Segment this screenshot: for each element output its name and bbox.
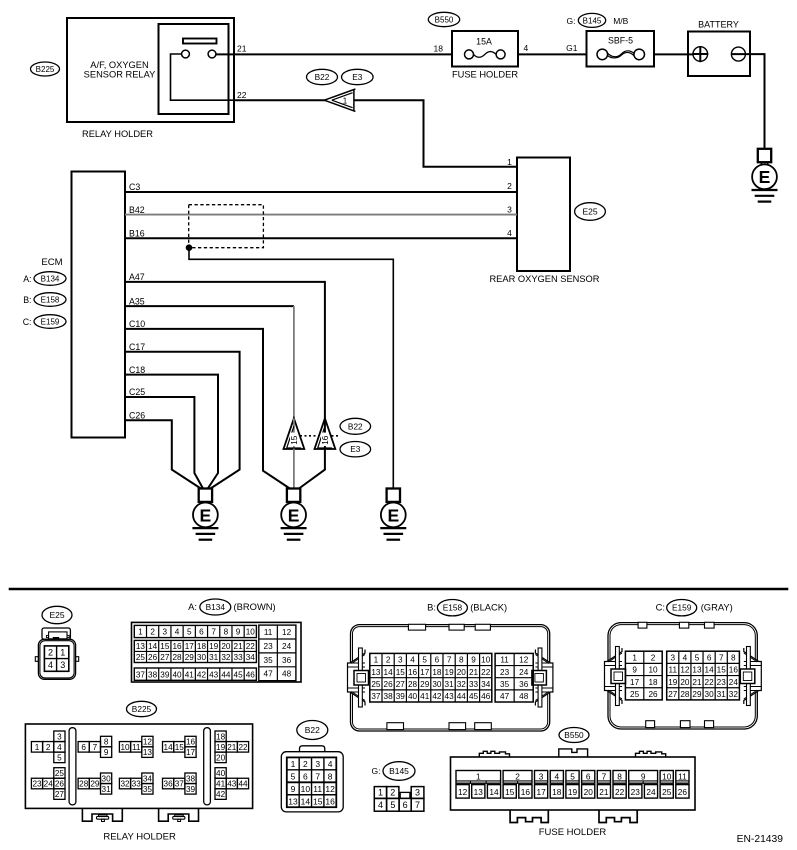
svg-text:A47: A47 — [129, 272, 145, 282]
wire A47 via triangle 16 to ground — [125, 282, 325, 418]
svg-text:43: 43 — [209, 670, 219, 679]
svg-text:17: 17 — [186, 748, 196, 757]
svg-text:30: 30 — [705, 690, 715, 699]
svg-text:7: 7 — [447, 656, 452, 665]
svg-text:28: 28 — [680, 690, 690, 699]
ECM box — [72, 172, 126, 438]
fuse holder bracket right — [599, 810, 637, 823]
svg-text:34: 34 — [246, 653, 256, 662]
connector B225 pins 40-44 — [215, 768, 249, 800]
wire through triangle 15 below — [293, 449, 295, 489]
relay holder bracket right — [159, 808, 199, 821]
svg-text:47: 47 — [264, 670, 274, 679]
svg-text:8: 8 — [459, 656, 464, 665]
svg-text:4: 4 — [328, 759, 333, 769]
svg-text:26: 26 — [678, 787, 688, 797]
connector oval B550 bottom — [559, 728, 589, 743]
svg-text:16: 16 — [186, 738, 196, 747]
svg-text:33: 33 — [469, 680, 479, 689]
svg-text:1: 1 — [378, 787, 383, 797]
svg-text:4: 4 — [378, 800, 383, 810]
svg-text:18: 18 — [197, 642, 207, 651]
svg-text:33: 33 — [132, 780, 142, 789]
connector oval E25 middle — [575, 203, 606, 221]
svg-text:24: 24 — [44, 780, 54, 789]
svg-text:15: 15 — [175, 743, 185, 752]
svg-text:2: 2 — [48, 648, 53, 658]
svg-text:20: 20 — [584, 787, 594, 797]
svg-text:C26: C26 — [129, 410, 145, 420]
svg-text:B42: B42 — [129, 205, 145, 215]
svg-text:6: 6 — [199, 628, 204, 637]
svg-text:C:: C: — [656, 602, 665, 613]
svg-text:32: 32 — [120, 780, 130, 789]
svg-text:1: 1 — [476, 771, 481, 781]
svg-text:20: 20 — [216, 753, 226, 762]
svg-text:19: 19 — [209, 642, 219, 651]
svg-text:22: 22 — [246, 642, 256, 651]
svg-text:13: 13 — [143, 748, 153, 757]
svg-text:M/B: M/B — [613, 16, 628, 26]
svg-text:C10: C10 — [129, 319, 145, 329]
svg-text:30: 30 — [197, 653, 207, 662]
svg-text:7: 7 — [211, 628, 216, 637]
svg-text:E159: E159 — [672, 603, 692, 613]
svg-text:9: 9 — [632, 666, 637, 675]
wire B16 to sensor pin 4 — [125, 237, 517, 239]
svg-text:E: E — [200, 505, 212, 525]
svg-text:44: 44 — [221, 670, 231, 679]
svg-text:3: 3 — [670, 653, 675, 662]
svg-text:21: 21 — [692, 678, 702, 687]
svg-text:17: 17 — [630, 678, 640, 687]
ground E right — [380, 489, 406, 540]
svg-text:4: 4 — [175, 628, 180, 637]
wire C3 to sensor pin 2 — [125, 191, 517, 193]
svg-text:36: 36 — [282, 656, 292, 665]
svg-text:10: 10 — [301, 784, 311, 794]
wire C25 to ground — [125, 397, 203, 489]
svg-text:21: 21 — [227, 743, 237, 752]
svg-text:6: 6 — [586, 771, 591, 781]
svg-text:A:: A: — [188, 601, 197, 612]
svg-text:16: 16 — [172, 642, 182, 651]
svg-text:BATTERY: BATTERY — [698, 20, 739, 30]
connector B550 fuse holder box — [451, 757, 696, 810]
svg-text:B225: B225 — [36, 65, 55, 74]
svg-text:31: 31 — [209, 653, 219, 662]
connector oval E3 top — [342, 69, 374, 84]
svg-text:35: 35 — [143, 785, 153, 794]
svg-text:9: 9 — [291, 784, 296, 794]
svg-text:E3: E3 — [350, 444, 361, 454]
shield triangle 15 — [284, 418, 305, 449]
svg-text:2: 2 — [46, 743, 51, 752]
svg-text:28: 28 — [172, 653, 182, 662]
svg-text:38: 38 — [186, 774, 196, 783]
svg-text:19: 19 — [216, 743, 226, 752]
svg-text:1: 1 — [507, 157, 512, 167]
svg-text:1: 1 — [138, 628, 143, 637]
svg-text:40: 40 — [408, 692, 418, 701]
svg-text:42: 42 — [432, 692, 442, 701]
svg-text:15: 15 — [313, 796, 323, 806]
svg-text:E: E — [288, 505, 300, 525]
svg-text:6: 6 — [81, 743, 86, 752]
svg-text:5: 5 — [291, 771, 296, 781]
svg-text:23: 23 — [264, 642, 274, 651]
svg-text:C:: C: — [23, 317, 32, 327]
svg-text:42: 42 — [216, 790, 226, 799]
svg-text:39: 39 — [186, 785, 196, 794]
svg-text:13: 13 — [371, 668, 381, 677]
svg-text:5: 5 — [695, 653, 700, 662]
relay holder outer box — [67, 18, 234, 122]
svg-text:12: 12 — [325, 784, 335, 794]
svg-text:48: 48 — [282, 670, 292, 679]
svg-text:5: 5 — [390, 800, 395, 810]
svg-text:2: 2 — [150, 628, 155, 637]
svg-text:11: 11 — [678, 771, 687, 781]
svg-text:A/F, OXYGEN: A/F, OXYGEN — [90, 60, 148, 70]
svg-text:20: 20 — [457, 668, 467, 677]
connector B225 pins 32-35 — [119, 773, 153, 794]
svg-text:2: 2 — [386, 656, 391, 665]
svg-text:6: 6 — [707, 653, 712, 662]
connector B225 pins 6-9 — [78, 736, 112, 757]
svg-text:1: 1 — [60, 648, 65, 658]
svg-text:23: 23 — [631, 787, 641, 797]
connector B550 pin cells — [456, 771, 689, 799]
svg-text:24: 24 — [646, 787, 656, 797]
connector B225 pins 23-27 — [31, 768, 65, 800]
fuse holder top tab middle — [559, 749, 588, 757]
svg-text:B550: B550 — [564, 730, 584, 740]
svg-text:10: 10 — [662, 771, 672, 781]
svg-text:30: 30 — [102, 774, 112, 783]
svg-text:E: E — [759, 167, 771, 187]
wire fuse holder to SBF-5 — [518, 53, 587, 55]
svg-text:4: 4 — [524, 43, 529, 53]
svg-text:8: 8 — [104, 738, 109, 747]
svg-text:3: 3 — [539, 771, 544, 781]
svg-text:9: 9 — [471, 656, 476, 665]
svg-text:16: 16 — [729, 666, 739, 675]
svg-text:4: 4 — [410, 656, 415, 665]
wire A35 shielded drop to ground — [293, 306, 295, 418]
svg-text:G:: G: — [567, 16, 576, 26]
svg-text:27: 27 — [668, 690, 678, 699]
svg-text:48: 48 — [519, 692, 529, 701]
svg-text:7: 7 — [315, 771, 320, 781]
svg-text:(BLACK): (BLACK) — [470, 602, 507, 613]
connector oval E25 bottom — [42, 606, 72, 623]
svg-text:B145: B145 — [583, 16, 602, 25]
connector oval B22 bottom — [297, 721, 328, 740]
svg-text:38: 38 — [384, 692, 394, 701]
svg-text:25: 25 — [136, 653, 146, 662]
svg-text:21: 21 — [599, 787, 609, 797]
svg-text:5: 5 — [422, 656, 427, 665]
svg-text:15: 15 — [290, 435, 299, 445]
connector oval E3 middle — [340, 442, 371, 457]
relay internal wire to pin 22 — [171, 54, 235, 100]
svg-text:20: 20 — [680, 678, 690, 687]
svg-text:11: 11 — [132, 743, 141, 752]
svg-text:B134: B134 — [206, 602, 226, 612]
svg-text:26: 26 — [648, 690, 658, 699]
svg-text:B225: B225 — [132, 704, 152, 714]
svg-text:24: 24 — [729, 678, 739, 687]
svg-text:14: 14 — [164, 743, 174, 752]
svg-text:19: 19 — [568, 787, 578, 797]
svg-text:10: 10 — [120, 743, 130, 752]
svg-text:32: 32 — [729, 690, 739, 699]
svg-text:9: 9 — [104, 748, 109, 757]
svg-text:27: 27 — [396, 680, 406, 689]
svg-text:45: 45 — [234, 670, 244, 679]
section divider line — [9, 588, 789, 590]
svg-text:16: 16 — [325, 796, 335, 806]
svg-text:5: 5 — [57, 753, 62, 762]
svg-text:18: 18 — [434, 44, 444, 54]
svg-text:B22: B22 — [315, 72, 330, 82]
svg-text:47: 47 — [500, 692, 510, 701]
svg-text:4: 4 — [48, 660, 53, 670]
svg-text:2: 2 — [390, 787, 395, 797]
relay contact pin 21 — [208, 50, 216, 58]
svg-text:E158: E158 — [41, 295, 60, 304]
svg-text:4: 4 — [683, 653, 688, 662]
svg-text:6: 6 — [303, 771, 308, 781]
wire C10 to ground — [125, 329, 290, 489]
svg-text:27: 27 — [55, 790, 65, 799]
svg-text:1: 1 — [632, 653, 637, 662]
svg-text:38: 38 — [148, 670, 158, 679]
svg-text:FUSE HOLDER: FUSE HOLDER — [539, 827, 607, 838]
svg-text:11: 11 — [669, 666, 678, 675]
svg-text:16: 16 — [408, 668, 418, 677]
svg-text:(BROWN): (BROWN) — [234, 601, 276, 612]
svg-text:25: 25 — [55, 769, 65, 778]
connector B225 pins 10-13 — [119, 736, 153, 757]
svg-text:46: 46 — [246, 670, 256, 679]
svg-text:SBF-5: SBF-5 — [608, 36, 633, 46]
svg-text:26: 26 — [384, 680, 394, 689]
svg-text:21: 21 — [237, 44, 247, 54]
fuse holder top tab right — [636, 751, 666, 757]
wire A35 horizontal — [125, 305, 294, 307]
svg-text:25: 25 — [630, 690, 640, 699]
svg-text:18: 18 — [648, 678, 658, 687]
svg-text:7: 7 — [415, 800, 420, 810]
svg-text:35: 35 — [500, 680, 510, 689]
svg-text:9: 9 — [236, 628, 241, 637]
svg-text:44: 44 — [457, 692, 467, 701]
svg-text:RELAY HOLDER: RELAY HOLDER — [82, 129, 153, 139]
svg-text:39: 39 — [160, 670, 170, 679]
svg-text:E158: E158 — [443, 603, 463, 613]
twisted pair dotted line — [300, 435, 341, 437]
svg-text:E25: E25 — [582, 207, 597, 217]
svg-text:23: 23 — [32, 780, 42, 789]
svg-text:B22: B22 — [348, 421, 363, 431]
svg-text:A:: A: — [23, 274, 31, 284]
wire SBF-5 to battery — [654, 53, 693, 55]
svg-text:32: 32 — [457, 680, 467, 689]
connector B22 pin grid — [287, 757, 337, 807]
svg-text:2: 2 — [303, 759, 308, 769]
svg-text:G1: G1 — [566, 43, 578, 53]
relay holder bracket left — [82, 808, 122, 821]
svg-text:42: 42 — [197, 670, 207, 679]
svg-text:C18: C18 — [129, 365, 145, 375]
svg-text:11: 11 — [264, 628, 273, 637]
svg-text:1: 1 — [291, 759, 296, 769]
svg-text:7: 7 — [719, 653, 724, 662]
fuse holder box with 15A fuse — [452, 31, 518, 67]
svg-text:ECM: ECM — [41, 257, 62, 268]
svg-text:REAR OXYGEN SENSOR: REAR OXYGEN SENSOR — [489, 274, 599, 284]
svg-text:13: 13 — [136, 642, 146, 651]
svg-text:8: 8 — [328, 771, 333, 781]
svg-text:E159: E159 — [41, 317, 60, 326]
svg-text:5: 5 — [187, 628, 192, 637]
svg-text:12: 12 — [680, 666, 690, 675]
svg-text:39: 39 — [396, 692, 406, 701]
svg-text:10: 10 — [648, 666, 658, 675]
svg-text:46: 46 — [481, 692, 491, 701]
connector E25 pin grid — [44, 646, 68, 671]
connector B225 box — [25, 724, 252, 808]
svg-text:37: 37 — [175, 780, 185, 789]
svg-text:17: 17 — [536, 787, 546, 797]
svg-text:(GRAY): (GRAY) — [701, 602, 733, 613]
svg-text:29: 29 — [185, 653, 195, 662]
wire C17 to ground — [125, 352, 240, 489]
svg-text:7: 7 — [93, 743, 98, 752]
svg-text:EN-21439: EN-21439 — [737, 834, 784, 845]
svg-text:28: 28 — [408, 680, 418, 689]
svg-text:34: 34 — [143, 774, 153, 783]
svg-text:18: 18 — [552, 787, 562, 797]
svg-text:10: 10 — [481, 656, 491, 665]
svg-text:5: 5 — [570, 771, 575, 781]
svg-text:4: 4 — [554, 771, 559, 781]
connector E25 housing — [35, 628, 78, 679]
svg-text:14: 14 — [384, 668, 394, 677]
connector E158 pin grid — [370, 653, 533, 702]
svg-text:3: 3 — [60, 660, 65, 670]
svg-text:26: 26 — [55, 780, 65, 789]
svg-text:SENSOR RELAY: SENSOR RELAY — [84, 69, 156, 79]
svg-text:43: 43 — [227, 780, 237, 789]
svg-text:E25: E25 — [49, 610, 64, 620]
svg-text:G:: G: — [372, 766, 381, 776]
shield triangle 16 — [315, 418, 336, 449]
svg-text:7: 7 — [602, 771, 607, 781]
svg-text:15: 15 — [160, 642, 170, 651]
label C: connector oval E159 bottom — [656, 600, 733, 616]
svg-text:21: 21 — [234, 642, 244, 651]
connector E158 housing — [348, 624, 553, 731]
svg-text:44: 44 — [238, 780, 248, 789]
svg-text:C25: C25 — [129, 387, 145, 397]
svg-text:RELAY HOLDER: RELAY HOLDER — [103, 832, 176, 843]
svg-text:15: 15 — [717, 666, 727, 675]
ground E battery — [752, 149, 778, 202]
connector oval B22 top — [307, 69, 338, 84]
label A: connector oval B134 bottom — [188, 599, 276, 615]
svg-text:4: 4 — [507, 228, 512, 238]
svg-text:40: 40 — [172, 670, 182, 679]
svg-text:45: 45 — [469, 692, 479, 701]
connector B225 pins 28-31 — [78, 773, 112, 794]
svg-text:18: 18 — [432, 668, 442, 677]
svg-text:B16: B16 — [129, 228, 145, 238]
svg-text:B134: B134 — [41, 274, 60, 283]
ground E left — [192, 489, 218, 540]
svg-text:25: 25 — [371, 680, 381, 689]
label G: B145 M/B — [567, 13, 629, 27]
wire pin 22 to rear oxygen sensor pin 1 — [234, 100, 517, 167]
connector B225 slot bar right — [204, 728, 211, 805]
svg-text:15: 15 — [396, 668, 406, 677]
connector oval B225 bottom — [127, 701, 157, 716]
svg-text:32: 32 — [221, 653, 231, 662]
shield dashed box — [189, 205, 264, 248]
svg-text:E3: E3 — [352, 72, 363, 82]
svg-text:11: 11 — [500, 656, 509, 665]
wire C18 to ground — [125, 375, 218, 489]
label C: connector oval E159 — [23, 315, 66, 329]
rear oxygen sensor box — [517, 158, 570, 272]
svg-text:20: 20 — [221, 642, 231, 651]
connector B225 pins 18-22 — [215, 731, 249, 763]
svg-text:26: 26 — [148, 653, 158, 662]
svg-text:12: 12 — [519, 656, 529, 665]
svg-text:40: 40 — [216, 769, 226, 778]
svg-text:2: 2 — [515, 771, 520, 781]
label B: connector oval E158 — [23, 293, 66, 307]
svg-text:13: 13 — [692, 666, 702, 675]
svg-text:37: 37 — [371, 692, 381, 701]
svg-text:11: 11 — [313, 784, 322, 794]
svg-text:33: 33 — [234, 653, 244, 662]
svg-text:C3: C3 — [129, 182, 140, 192]
svg-text:22: 22 — [615, 787, 625, 797]
svg-text:18: 18 — [216, 732, 226, 741]
svg-text:36: 36 — [519, 680, 529, 689]
svg-text:12: 12 — [458, 787, 468, 797]
connector B134 pin grid — [132, 622, 302, 682]
svg-text:17: 17 — [420, 668, 430, 677]
svg-text:15A: 15A — [476, 36, 492, 46]
svg-text:2: 2 — [507, 181, 512, 191]
label G: connector oval B145 bottom — [372, 762, 415, 781]
svg-text:2: 2 — [651, 653, 656, 662]
connector B145 pin grid — [374, 787, 424, 812]
svg-text:31: 31 — [717, 690, 727, 699]
svg-text:14: 14 — [705, 666, 715, 675]
wire pin 21 to fuse holder — [216, 53, 452, 55]
svg-text:6: 6 — [435, 656, 440, 665]
connector B225 slot bar left — [69, 728, 76, 805]
svg-text:31: 31 — [102, 785, 112, 794]
svg-text:41: 41 — [216, 780, 226, 789]
svg-text:3: 3 — [507, 205, 512, 215]
A/F oxygen sensor relay inner box — [159, 24, 229, 114]
